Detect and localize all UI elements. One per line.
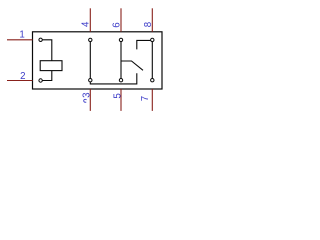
pin 6 wire (top stub) xyxy=(120,8,122,32)
svg-text:2: 2 xyxy=(20,71,25,82)
contact terminal circle pin 3 xyxy=(89,79,92,82)
svg-text:6: 6 xyxy=(111,22,122,27)
contact terminal circle pin 6 xyxy=(119,38,122,41)
small blue mark below pin 3 number xyxy=(84,99,87,102)
coil top connecting wire xyxy=(43,40,52,61)
relay body outline box xyxy=(33,32,163,89)
pin 3 wire (bottom stub) xyxy=(89,89,91,111)
switch lever (armature) from pins 6-5 column xyxy=(121,61,143,70)
coil terminal circle, pin 1 side xyxy=(39,38,42,41)
wire pins 4-3 column xyxy=(89,42,91,79)
pin 1 wire xyxy=(7,39,33,41)
normally-closed contact stub from pin 8 xyxy=(137,40,151,49)
normally-open contact stub and bar to pin 3 xyxy=(90,73,137,84)
contact terminal circle pin 4 xyxy=(89,38,92,41)
wire pins 8-7 column xyxy=(151,42,153,79)
svg-text:1: 1 xyxy=(19,30,24,41)
coil bottom connecting wire xyxy=(43,71,52,81)
svg-text:7: 7 xyxy=(140,96,151,101)
pin 8 wire (top stub) xyxy=(151,8,153,32)
pin 7 wire (bottom stub) xyxy=(151,89,153,111)
coil terminal circle, pin 2 side xyxy=(39,79,42,82)
svg-text:5: 5 xyxy=(112,93,123,98)
svg-text:4: 4 xyxy=(81,21,92,27)
wire pins 6-5 column xyxy=(120,42,122,79)
pin 5 wire (bottom stub) xyxy=(120,89,122,111)
svg-text:8: 8 xyxy=(143,22,154,27)
contact terminal circle pin 5 xyxy=(119,79,122,82)
pin 4 wire (top stub) xyxy=(89,8,91,32)
contact terminal circle pin 8 xyxy=(151,38,154,41)
svg-text:3: 3 xyxy=(82,92,93,97)
contact terminal circle pin 7 xyxy=(151,79,154,82)
coil rectangle xyxy=(40,61,62,71)
pin 2 wire xyxy=(7,80,33,82)
